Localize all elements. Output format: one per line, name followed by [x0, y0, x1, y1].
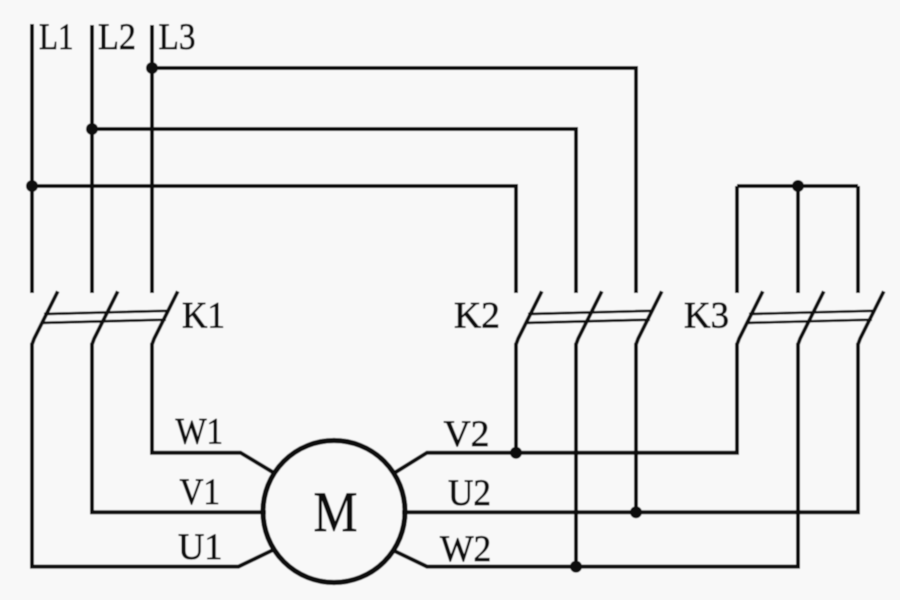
contactor K3 linkage	[749, 311, 874, 314]
node K3 bar junction	[792, 180, 804, 192]
contactor K2 pole 3 blade	[636, 291, 662, 344]
contactor K1 pole 1 blade	[32, 291, 58, 344]
node L2 tap junction	[86, 123, 98, 135]
wire L1 vertical feed	[30, 24, 34, 293]
svg-text:U2: U2	[448, 472, 491, 513]
contactor K1 linkage	[44, 311, 168, 314]
wire K2 pole 2 lower stub	[574, 343, 578, 567]
contactor K2 pole 2 blade	[576, 291, 602, 344]
contactor K1 pole 3 blade	[152, 291, 178, 344]
svg-text:V1: V1	[180, 471, 221, 512]
wire K3 star bar	[737, 184, 858, 188]
wire K3 pole 3 upper stub	[856, 186, 860, 293]
wire motor V2 to K3 pole 1	[394, 343, 738, 474]
motor M circle	[263, 441, 405, 583]
wire L1 tap to K2 pole 1	[32, 186, 516, 293]
svg-text:K2: K2	[454, 296, 500, 337]
svg-text:L3: L3	[159, 17, 196, 58]
wire K1 pole 2 to motor V1	[92, 343, 266, 512]
contactor K3 pole 3 blade	[858, 291, 884, 344]
svg-text:L2: L2	[98, 17, 136, 58]
svg-text:K1: K1	[182, 296, 225, 337]
wire K3 pole 2 upper stub	[796, 186, 800, 293]
wire L2 tap to K2 pole 2	[92, 129, 576, 293]
contactor K2 pole 1 blade	[516, 291, 542, 344]
node L1 tap junction	[26, 180, 38, 192]
node W2/K2 junction	[570, 561, 582, 573]
contactor K3 pole 2 blade	[798, 291, 824, 344]
contactor K3 pole 1 blade	[737, 291, 763, 344]
wire K1 pole 1 to motor U1	[32, 343, 274, 567]
svg-text:L1: L1	[39, 17, 74, 58]
svg-text:W1: W1	[176, 411, 224, 452]
wire L3 tap to K2 pole 3	[152, 68, 636, 293]
node L3 tap junction	[146, 62, 158, 74]
svg-text:V2: V2	[444, 413, 490, 454]
wire motor W2 to K3 pole 2	[394, 343, 799, 567]
contactor K1 pole 2 blade	[92, 291, 118, 344]
svg-text:K3: K3	[684, 296, 729, 337]
svg-text:W2: W2	[440, 528, 491, 569]
wire K1 pole 3 to motor W1	[152, 343, 275, 474]
wire motor U2 to K3 pole 3	[402, 343, 858, 512]
node U2/K2 junction	[630, 506, 642, 518]
contactor K2 linkage	[528, 311, 652, 314]
wire L2 vertical feed	[90, 25, 94, 293]
wire K2 pole 1 lower stub	[514, 343, 518, 453]
wire K3 pole 1 upper stub	[735, 186, 739, 293]
wire L3 vertical feed	[150, 25, 154, 293]
svg-text:M: M	[314, 481, 358, 544]
node V2/K2 junction	[510, 447, 522, 459]
svg-text:U1: U1	[178, 526, 223, 567]
wire K2 pole 3 lower stub	[634, 343, 638, 512]
